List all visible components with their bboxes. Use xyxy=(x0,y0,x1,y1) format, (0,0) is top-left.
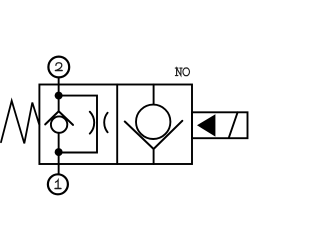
orifice right arc "(" xyxy=(104,113,107,133)
node: bottom junction dot xyxy=(55,148,63,156)
wire: right position top stem xyxy=(153,85,155,105)
orifice left arc ")" xyxy=(90,112,94,134)
wire: top junction to check valve seat xyxy=(58,96,60,112)
wire: right position bottom stem xyxy=(153,149,155,164)
solenoid box xyxy=(192,112,248,138)
poppet seat V xyxy=(125,121,183,149)
node: top junction dot xyxy=(55,92,63,100)
poppet ball (right position) xyxy=(136,105,170,139)
solenoid arrow (filled triangle) xyxy=(197,114,215,136)
port 1 label "1" xyxy=(55,180,61,188)
wire: check valve to bottom junction xyxy=(58,133,60,152)
valve envelope (2-position body) xyxy=(39,85,192,165)
port 2 label "2" xyxy=(56,63,63,71)
check valve seat (chevron) xyxy=(45,111,73,125)
wire: bypass loop (inner box) with orifice on right leg xyxy=(59,96,97,153)
position divider line xyxy=(116,85,118,165)
wire: bottom junction to port 1 xyxy=(58,152,60,174)
spring (left actuator) xyxy=(1,101,39,144)
solenoid slash xyxy=(229,112,238,138)
label NO (normally open) xyxy=(175,68,189,76)
wire: port 2 to top junction xyxy=(58,78,60,96)
port 1 circle xyxy=(48,174,68,194)
check valve ball (left position) xyxy=(51,116,67,132)
port 2 circle xyxy=(48,57,69,78)
